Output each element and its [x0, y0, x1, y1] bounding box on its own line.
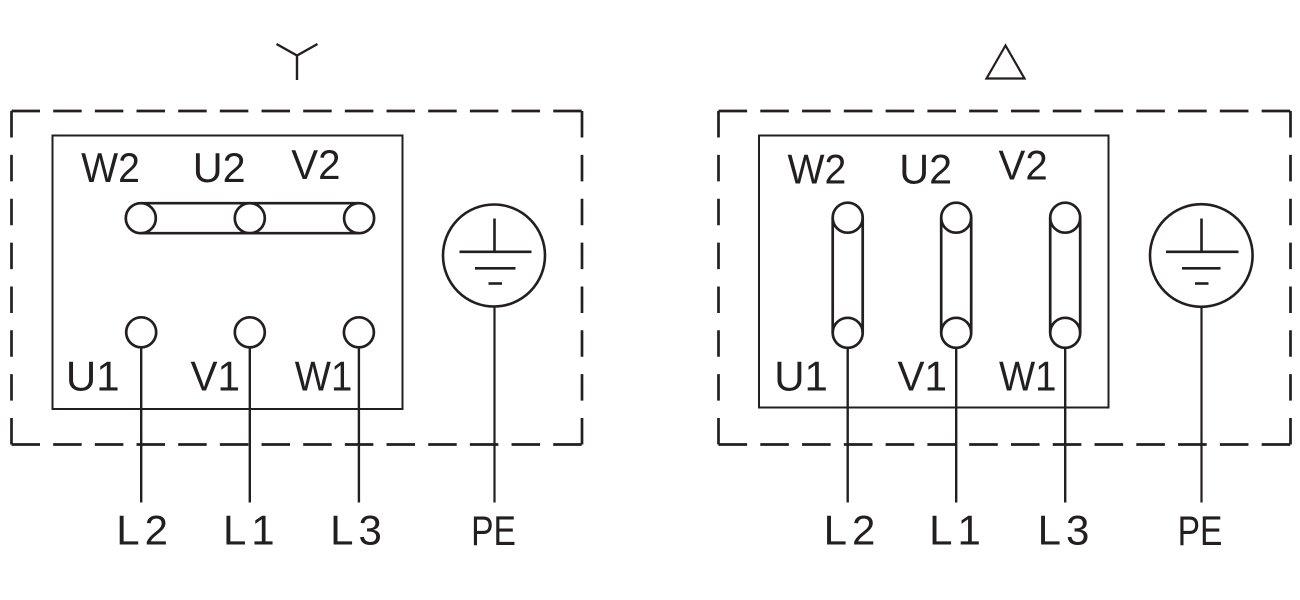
- terminal V2 (right): [1050, 203, 1080, 233]
- svg-text:W1: W1: [295, 353, 353, 400]
- svg-text:V1: V1: [191, 353, 241, 400]
- bridging bar U2-V1: [941, 218, 971, 333]
- terminal W1 (right): [1050, 318, 1080, 348]
- dashed enclosure box (right, delta connection): [719, 111, 1291, 445]
- delta symbol: [987, 46, 1025, 79]
- wire W1 to L3: [358, 347, 360, 502]
- svg-text:V1: V1: [898, 353, 948, 400]
- svg-text:V2: V2: [291, 141, 340, 188]
- wire W1 to L3 (right): [1064, 348, 1066, 503]
- svg-text:U1: U1: [774, 353, 828, 400]
- svg-text:W1: W1: [999, 353, 1057, 400]
- terminal U1: [126, 317, 156, 347]
- svg-text:L1: L1: [929, 507, 986, 554]
- svg-text:L2: L2: [116, 507, 173, 554]
- svg-text:V2: V2: [999, 142, 1048, 189]
- svg-text:L2: L2: [824, 507, 881, 554]
- svg-text:L3: L3: [1038, 507, 1095, 554]
- terminal W2 (right): [833, 203, 863, 233]
- terminal U2 (right): [941, 203, 971, 233]
- bridging bar W2-U1: [833, 218, 863, 333]
- terminal U2: [235, 203, 265, 233]
- svg-text:L1: L1: [223, 507, 280, 554]
- wire earth to PE (left): [493, 307, 495, 503]
- svg-text:U2: U2: [193, 144, 246, 191]
- bridging bar V2-W1: [1050, 218, 1080, 333]
- wire V1 to L1: [249, 347, 251, 502]
- svg-text:U2: U2: [899, 145, 952, 192]
- dashed enclosure box (left, star connection): [12, 111, 583, 445]
- svg-text:PE: PE: [1178, 509, 1223, 555]
- terminal board rectangle (left): [53, 136, 403, 410]
- terminal V1: [235, 317, 265, 347]
- terminal W1: [344, 317, 374, 347]
- svg-text:U1: U1: [66, 353, 120, 400]
- star (wye) symbol: [277, 44, 318, 80]
- terminal board rectangle (right): [759, 136, 1109, 408]
- svg-text:W2: W2: [788, 145, 847, 193]
- wire earth to PE (right): [1200, 307, 1202, 503]
- terminal V2: [344, 203, 374, 233]
- svg-text:PE: PE: [471, 509, 516, 555]
- protective earth symbol (right): [1150, 204, 1253, 307]
- terminal V1 (right): [941, 318, 971, 348]
- wire U1 to L2 (right): [847, 348, 849, 503]
- bridging bar linking W2 U2 V2: [141, 203, 359, 233]
- wire U1 to L2: [140, 347, 142, 502]
- terminal U1 (right): [833, 318, 863, 348]
- protective earth symbol (left): [443, 205, 545, 307]
- svg-text:L3: L3: [330, 507, 387, 554]
- terminal W2: [126, 203, 156, 233]
- wire V1 to L1 (right): [955, 348, 957, 503]
- svg-text:W2: W2: [81, 144, 140, 192]
